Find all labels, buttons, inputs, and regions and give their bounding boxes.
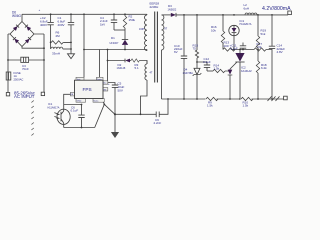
svg-text:Vcc: Vcc — [103, 83, 106, 85]
junction dots R6/L1 — [50, 42, 72, 50]
svg-text:2M: 2M — [56, 34, 61, 38]
svg-text:250VAC: 250VAC — [14, 77, 24, 81]
label C14 — [277, 43, 286, 54]
svg-text:D3: D3 — [168, 4, 172, 8]
svg-text:1.5k: 1.5k — [207, 104, 213, 108]
svg-text:6.2k: 6.2k — [261, 66, 267, 70]
label C4 — [100, 16, 108, 26]
label IC2 — [241, 65, 252, 72]
wire FPS gnd node — [103, 102, 115, 115]
svg-text:1N4148: 1N4148 — [117, 67, 126, 70]
svg-text:51k: 51k — [261, 32, 266, 36]
label C10 — [174, 44, 183, 54]
svg-text:D1: D1 — [111, 36, 115, 40]
label R18 — [261, 63, 267, 70]
label C6 — [71, 106, 79, 113]
svg-text:75: 75 — [193, 46, 197, 50]
wire Vcc from aux — [107, 50, 109, 81]
svg-text:FPS: FPS — [83, 87, 92, 92]
svg-text:10k: 10k — [211, 28, 216, 32]
svg-text:Vstr: Vstr — [77, 78, 81, 81]
resistor R10 shunt — [241, 97, 254, 108]
label C2 — [40, 16, 48, 27]
label C9 — [154, 118, 162, 125]
label AC input — [14, 90, 36, 99]
label IC1 upper — [240, 19, 252, 26]
svg-text:1N5822: 1N5822 — [168, 9, 177, 12]
capacitor C6 — [78, 105, 84, 128]
label IC1 — [48, 102, 60, 109]
IC U1 FPS controller — [70, 77, 108, 102]
label R6 — [56, 31, 61, 38]
label C3 — [22, 64, 29, 71]
svg-text:KA431AZ: KA431AZ — [241, 70, 252, 73]
svg-text:70nF: 70nF — [22, 67, 29, 71]
terminal AC1 — [6, 93, 9, 96]
capacitor C2 — [47, 14, 53, 49]
svg-text:0.1uF: 0.1uF — [230, 47, 238, 51]
svg-text:Drain: Drain — [97, 78, 103, 81]
svg-text:AC INPUT: AC INPUT — [14, 94, 35, 99]
svg-text:400V: 400V — [58, 23, 65, 27]
wire bridge negative stub — [22, 47, 44, 49]
label R2 — [129, 15, 136, 22]
svg-text:166T: 166T — [139, 28, 145, 31]
label D2 — [117, 63, 126, 70]
node dots output rail — [183, 14, 273, 16]
label C11 — [230, 44, 238, 51]
svg-text:4T: 4T — [150, 72, 153, 75]
svg-text:H11A817A: H11A817A — [240, 23, 252, 26]
ground primary small — [68, 54, 75, 59]
svg-text:0.1uF: 0.1uF — [203, 60, 211, 64]
wire top rail — [22, 13, 147, 15]
svg-text:33mH: 33mH — [52, 52, 60, 56]
wire secondary bottom — [162, 98, 284, 100]
svg-text:W06G: W06G — [12, 14, 22, 18]
label R3 — [135, 63, 140, 70]
capacitor C11 — [240, 43, 246, 51]
svg-text:2236H: 2236H — [150, 5, 159, 9]
svg-text:+: + — [39, 8, 41, 12]
capacitor C5 — [108, 83, 118, 115]
diode D2 — [108, 59, 132, 63]
wire AC line 1 — [7, 34, 9, 93]
label D1 — [110, 36, 120, 45]
diode D4 zener — [193, 68, 202, 99]
opto-coupler IC1 LED side — [229, 25, 239, 50]
resistor R18 — [256, 50, 259, 100]
capacitor C9 Y-cap — [114, 99, 168, 117]
capacitor C10 — [181, 15, 187, 99]
svg-text:1kV: 1kV — [100, 22, 105, 26]
capacitor C1 — [68, 14, 74, 53]
fuse F1 — [6, 72, 11, 80]
resistor R6 — [51, 41, 63, 44]
svg-text:150k: 150k — [129, 18, 136, 22]
wire Vstr vertical — [83, 14, 85, 77]
wire snubber bottom — [114, 29, 125, 31]
label R16 — [211, 25, 217, 32]
svg-text:1.5k: 1.5k — [214, 67, 220, 71]
diode D1 — [122, 30, 128, 50]
wire opto emitter bottom — [64, 104, 105, 128]
svg-text:6uH: 6uH — [244, 7, 250, 11]
resistor R9 shunt — [206, 97, 219, 108]
label D4 — [183, 67, 194, 74]
svg-text:400V: 400V — [40, 23, 47, 27]
label C12 — [203, 57, 211, 64]
label D3 — [168, 4, 177, 12]
wire AC line 2 — [43, 34, 45, 92]
svg-text:D2: D2 — [118, 63, 122, 67]
label fuse — [14, 71, 24, 81]
resistor R15 — [195, 15, 198, 68]
terminal output minus — [284, 96, 288, 100]
resistor R14 — [207, 69, 230, 73]
capacitor C3 (X-cap) — [7, 57, 45, 62]
wire drain pin vertical — [99, 50, 101, 78]
svg-text:4.8V: 4.8V — [277, 50, 283, 54]
svg-text:100: 100 — [224, 44, 229, 48]
capacitor C12 — [196, 61, 210, 71]
label C1 — [58, 16, 66, 27]
label R14 — [214, 63, 220, 70]
opto-coupler IC1 transistor side — [54, 105, 70, 128]
svg-text:H11A817A: H11A817A — [48, 106, 60, 109]
isolation dashed line — [31, 101, 33, 136]
bridge rectifier D6 — [8, 14, 44, 46]
svg-text:Sa1a: Sa1a — [93, 101, 99, 103]
resistor R19 — [257, 15, 259, 36]
svg-text:0.1uF: 0.1uF — [71, 109, 79, 113]
resistor R3 — [131, 59, 139, 62]
label R19 — [261, 29, 267, 36]
capacitor C14 — [269, 15, 275, 99]
svg-text:GND: GND — [77, 101, 82, 103]
transformer T1 — [139, 2, 168, 115]
svg-text:50V: 50V — [118, 88, 123, 92]
wire drain — [84, 49, 147, 51]
terminal output plus — [288, 11, 292, 15]
wire FB to opto — [64, 94, 83, 105]
label R13 — [224, 41, 230, 48]
svg-text:2.2nF: 2.2nF — [154, 121, 162, 125]
node dots on rail — [50, 13, 126, 15]
inductor L1 33mH — [51, 47, 63, 49]
resistor R16 — [221, 15, 224, 50]
wire feedback node — [231, 49, 272, 51]
label R15 — [193, 43, 199, 50]
capacitor C4 snubber — [111, 14, 117, 30]
svg-text:6V: 6V — [174, 50, 178, 54]
label C5 — [108, 82, 125, 93]
resistor R17 — [254, 48, 266, 51]
svg-text:UF4007: UF4007 — [110, 42, 120, 45]
svg-text:1.5k: 1.5k — [243, 104, 249, 108]
svg-text:9T: 9T — [164, 28, 167, 31]
svg-text:IC2: IC2 — [241, 65, 246, 69]
svg-text:D4: D4 — [184, 67, 188, 71]
terminal AC2 — [41, 92, 44, 95]
svg-text:5.1: 5.1 — [135, 66, 140, 70]
resistor R2 snubber — [123, 14, 126, 30]
ground chassis — [268, 96, 280, 101]
svg-text:+: + — [108, 82, 110, 86]
ground primary main — [111, 114, 119, 138]
label D6 — [12, 10, 22, 17]
label R17 — [257, 42, 263, 49]
resistor R13 — [223, 48, 235, 51]
diode D3 — [162, 13, 289, 17]
svg-text:4.2V/800mA: 4.2V/800mA — [262, 6, 291, 12]
shunt regulator IC2 KA431 — [228, 49, 245, 100]
svg-text:1N4738A: 1N4738A — [183, 72, 194, 75]
inductor L2 — [244, 3, 258, 15]
